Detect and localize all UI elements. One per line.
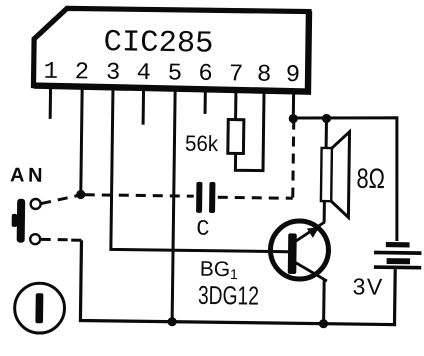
svg-text:56k: 56k — [185, 131, 219, 156]
svg-text:3V: 3V — [352, 273, 383, 299]
svg-text:5: 5 — [168, 60, 183, 87]
svg-text:8: 8 — [257, 62, 272, 89]
svg-text:7: 7 — [229, 61, 244, 88]
svg-text:1: 1 — [43, 59, 58, 86]
svg-text:4: 4 — [136, 60, 151, 87]
svg-text:C: C — [196, 217, 210, 242]
svg-text:CIC285: CIC285 — [103, 26, 213, 61]
svg-text:6: 6 — [198, 61, 213, 88]
svg-text:BG1: BG1 — [200, 258, 239, 282]
svg-text:8Ω: 8Ω — [356, 163, 385, 194]
svg-text:9: 9 — [285, 62, 300, 89]
svg-text:AN: AN — [10, 164, 46, 186]
svg-text:3: 3 — [106, 60, 121, 87]
svg-text:3DG12: 3DG12 — [198, 280, 259, 311]
svg-text:2: 2 — [75, 59, 90, 86]
